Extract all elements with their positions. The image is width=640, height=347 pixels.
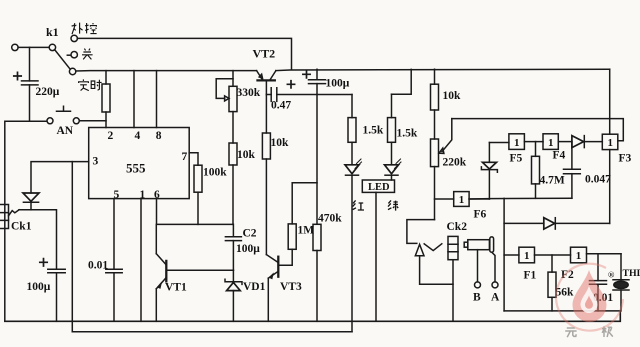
svg-text:F6: F6 <box>474 209 487 221</box>
svg-text:1: 1 <box>514 137 520 149</box>
resistor 1.5k left <box>348 95 356 165</box>
gate F6 <box>454 192 469 207</box>
wire top rail right <box>276 69 610 70</box>
svg-text:1: 1 <box>548 137 554 149</box>
svg-text:F3: F3 <box>619 153 632 165</box>
wire pin6 drop <box>157 199 234 225</box>
gate logic 1 symbols <box>459 137 613 262</box>
zener diode VD1 <box>225 270 242 321</box>
svg-text:10k: 10k <box>237 149 256 161</box>
node battery terminal <box>12 44 18 50</box>
svg-text:555: 555 <box>126 161 146 176</box>
wire 1.5k right riser <box>392 69 412 94</box>
svg-text:AN: AN <box>57 125 74 137</box>
svg-text:k1: k1 <box>46 25 59 39</box>
svg-text:B: B <box>473 292 481 304</box>
connector Ck2 <box>415 236 458 321</box>
svg-text:2: 2 <box>108 130 114 142</box>
svg-text:7: 7 <box>182 151 188 163</box>
svg-text:10k: 10k <box>443 90 462 102</box>
wire F2 out <box>587 253 622 255</box>
wire pin3 rail2 <box>72 331 352 333</box>
label ji grey <box>602 326 613 337</box>
wire F1 in <box>504 254 519 256</box>
svg-text:1: 1 <box>524 250 530 262</box>
potentiometer 220k <box>431 119 452 220</box>
wire F3 bottom <box>609 150 611 224</box>
wire F6 lower net <box>469 197 572 200</box>
capacitor 100u top <box>303 69 326 94</box>
capacitor 100u left <box>40 259 65 322</box>
svg-text:1.5k: 1.5k <box>397 128 418 140</box>
svg-text:F5: F5 <box>510 153 523 165</box>
svg-text:®: ® <box>608 270 615 280</box>
wire 220k wiper to F3 <box>452 119 624 141</box>
svg-text:100k: 100k <box>203 167 227 179</box>
svg-text:Ck2: Ck2 <box>447 221 468 233</box>
wire waikong net <box>77 38 291 69</box>
wire pin3 drop to rail2 <box>71 162 73 332</box>
wire subcircuit left edge <box>503 198 505 311</box>
switch k1 <box>49 35 77 75</box>
svg-text:4.7M: 4.7M <box>540 175 565 187</box>
svg-text:1M: 1M <box>298 225 315 237</box>
svg-text:VT3: VT3 <box>280 281 302 293</box>
svg-text:100μ: 100μ <box>27 281 51 293</box>
node LED box <box>362 180 394 321</box>
wire pin3 <box>31 162 89 193</box>
capacitor 0.047 <box>564 142 581 199</box>
wire 220k to F6 <box>435 198 454 200</box>
crystal THD <box>613 254 629 311</box>
svg-text:1.5k: 1.5k <box>363 125 384 137</box>
capacitor 0.01 pin5 <box>106 199 122 322</box>
wire F1 to F2 <box>535 254 571 256</box>
label lv green <box>388 200 398 210</box>
LED red <box>345 159 362 332</box>
svg-text:100μ: 100μ <box>326 78 350 90</box>
diode F4 to F3 <box>572 136 602 148</box>
zener diode near F6 <box>481 143 497 200</box>
wire zener to F5 <box>489 142 509 144</box>
svg-text:330k: 330k <box>237 87 261 99</box>
gate F5 <box>509 134 525 150</box>
wire Ck2 branch <box>407 220 435 244</box>
resistor timer (unlabeled) <box>102 71 110 128</box>
resistor 1M <box>288 183 317 250</box>
diode lower <box>544 218 556 229</box>
wire pin7 <box>189 153 198 166</box>
wire VT3 base to 1M <box>279 249 292 265</box>
wire AN right to pin2 <box>79 120 106 122</box>
label hong red <box>353 200 364 210</box>
gate F2 <box>571 247 587 263</box>
label waikong <box>72 23 97 35</box>
watermark seal <box>556 264 623 331</box>
svg-text:C2: C2 <box>243 228 257 240</box>
svg-text:1: 1 <box>459 194 465 206</box>
svg-text:1: 1 <box>576 250 582 262</box>
svg-text:F1: F1 <box>524 270 537 282</box>
resistor 10k right <box>431 69 439 139</box>
capacitor 0.01 right <box>590 254 607 311</box>
wire pin4 riser <box>133 71 135 128</box>
resistor 56k <box>548 255 556 311</box>
svg-text:0.047: 0.047 <box>585 174 611 186</box>
wire pin8 riser <box>156 71 158 128</box>
resistor 100k <box>194 165 202 224</box>
plug with leads A B <box>464 237 498 288</box>
wire diode row <box>504 222 610 224</box>
svg-text:1: 1 <box>607 137 613 149</box>
wire ground rail <box>5 311 621 321</box>
capacitor C2 100u <box>225 224 241 270</box>
svg-text:A: A <box>491 292 500 304</box>
svg-text:4: 4 <box>135 130 141 142</box>
pushbutton AN <box>47 106 79 124</box>
label wu grey <box>565 328 576 337</box>
wire F4 to diode <box>558 141 572 143</box>
svg-text:470k: 470k <box>318 213 342 225</box>
labels latin <box>11 25 640 304</box>
wire pin1 drop <box>140 199 142 322</box>
svg-text:100μ: 100μ <box>236 243 260 255</box>
wire VT1 base <box>167 269 233 271</box>
resistor 1.5k right <box>388 94 396 165</box>
transistor Q1 VT1 <box>156 224 166 321</box>
capacitor 0.47 <box>266 81 352 102</box>
svg-text:10k: 10k <box>271 137 290 149</box>
svg-text:0.01: 0.01 <box>88 260 108 272</box>
resistor 470k <box>313 95 321 322</box>
svg-text:F4: F4 <box>553 150 566 162</box>
wire diode cathode to 100u <box>19 210 57 269</box>
svg-text:6: 6 <box>154 189 160 201</box>
resistor 10k second <box>262 95 270 255</box>
svg-text:VT2: VT2 <box>253 47 276 61</box>
gate F4 <box>543 134 558 150</box>
gate F1 <box>519 247 535 263</box>
svg-text:5: 5 <box>114 189 120 201</box>
label guan <box>82 49 93 60</box>
svg-text:220k: 220k <box>443 157 467 169</box>
resistor 10k first <box>229 143 237 224</box>
svg-text:LED: LED <box>368 182 390 193</box>
resistor 4.7M <box>532 142 540 199</box>
svg-text:Ck1: Ck1 <box>11 221 32 233</box>
op-amp U1 555 timer <box>89 128 190 199</box>
LED green <box>385 159 402 180</box>
svg-text:1: 1 <box>140 189 146 201</box>
svg-text:8: 8 <box>156 130 162 142</box>
transistor Q2 VT2 <box>257 71 276 95</box>
label dingshi <box>79 79 102 90</box>
svg-text:0.47: 0.47 <box>271 100 291 112</box>
wire terminal to k1 <box>18 46 49 48</box>
wire AN left net <box>5 121 47 321</box>
svg-text:VD1: VD1 <box>243 281 266 293</box>
connector Ck1 <box>0 205 19 229</box>
wire F5 to F4 <box>524 141 543 143</box>
wire F6 out <box>469 198 489 200</box>
svg-text:220μ: 220μ <box>36 86 60 98</box>
wire top rail left <box>76 70 257 72</box>
svg-text:3: 3 <box>93 156 99 168</box>
potentiometer 330k <box>216 71 237 143</box>
diode near Ck1 <box>23 193 39 210</box>
capacitor 220u <box>14 47 38 121</box>
wire rail into F3 top <box>609 69 611 134</box>
gate F3 <box>602 134 618 149</box>
svg-text:VT1: VT1 <box>165 282 187 294</box>
svg-text:THD: THD <box>623 268 640 279</box>
transistor Q3 VT3 <box>266 255 278 322</box>
wire subcircuit bottom <box>504 310 620 312</box>
